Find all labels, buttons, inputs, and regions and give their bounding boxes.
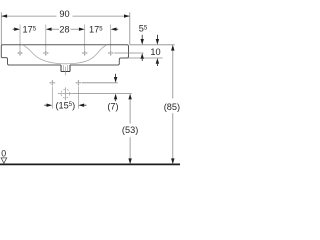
dimension 85 lower arrow — [171, 158, 174, 164]
dimension 28 right arrow — [71, 28, 79, 30]
tap hole extension line 1 — [19, 25, 21, 51]
svg-text:(155): (155) — [55, 100, 75, 110]
svg-text:(85): (85) — [164, 102, 180, 112]
tap hole extension line 4 — [110, 25, 112, 51]
dimension 85 line lower — [172, 113, 174, 158]
dimension 53 upper arrow — [128, 94, 131, 100]
dimension 17.5 left arrow — [13, 28, 15, 30]
tap level leader line — [114, 52, 143, 54]
tap hole cross 1 — [17, 50, 23, 56]
dimension 53 lower arrow — [128, 158, 131, 164]
dimension 7 lower arrow — [114, 94, 117, 100]
svg-text:(53): (53) — [122, 125, 138, 135]
trap connection circle — [61, 89, 70, 98]
dimension 90 arrow right — [124, 14, 130, 17]
dimension 17.5 right arrow — [111, 28, 117, 31]
step level leader line — [129, 57, 163, 59]
dimension 90 line — [1, 15, 56, 17]
basin top reference line — [130, 44, 175, 46]
dimension 10 lower arrow — [156, 58, 159, 64]
svg-text:(7): (7) — [107, 102, 118, 112]
dimension 53 line upper — [129, 99, 131, 123]
trap level leader line — [73, 93, 132, 95]
floor line — [0, 163, 180, 165]
dimension 15.5 left arrow — [44, 104, 46, 106]
dimension 85 line upper — [172, 51, 174, 99]
fixing hole extension line right — [77, 87, 79, 109]
dimension 53 line lower — [129, 137, 131, 158]
dimension 15.5 right arrow — [78, 104, 84, 107]
svg-text:90: 90 — [59, 9, 69, 19]
datum triangle — [1, 158, 7, 163]
svg-text:28: 28 — [59, 25, 69, 35]
dimension 90 extension line right — [129, 12, 131, 45]
tap hole cross 2 — [43, 50, 49, 56]
fixing hole extension line left — [51, 87, 53, 109]
drain outlet — [61, 65, 70, 72]
svg-text:0: 0 — [1, 149, 6, 159]
dimension 28 left arrow — [46, 28, 52, 31]
drain inner lines — [62, 65, 64, 71]
dimension 10 upper arrow — [156, 35, 158, 39]
tap hole cross 3 — [82, 50, 88, 56]
trap centerline horizontal — [58, 93, 73, 95]
fixing hole cross left — [49, 80, 55, 86]
drain centerline — [64, 67, 66, 76]
dimension 7 upper arrow — [115, 74, 117, 77]
dimension 90 arrow left — [1, 14, 7, 17]
tap hole cross 4 — [108, 50, 114, 56]
dimension 90 extension line left — [0, 12, 2, 45]
fixing hole level leader line — [82, 82, 118, 84]
tap hole extension line 2 — [45, 25, 47, 51]
dimension 5.5 upper arrow — [141, 35, 143, 39]
svg-text:10: 10 — [150, 47, 160, 57]
trap centerline vertical — [64, 87, 66, 100]
washbasin outline — [1, 45, 128, 65]
dimension 85 upper arrow — [171, 45, 174, 51]
tap hole extension line 3 — [84, 25, 86, 51]
washbasin bowl curve — [22, 45, 107, 64]
fixing hole cross right — [76, 80, 82, 86]
dimension 5.5 lower arrow — [141, 53, 144, 59]
